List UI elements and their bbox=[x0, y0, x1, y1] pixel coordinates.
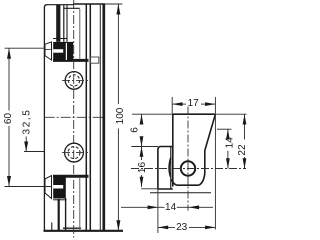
svg-text:23: 23 bbox=[176, 222, 188, 233]
svg-text:22: 22 bbox=[237, 144, 248, 156]
svg-text:14: 14 bbox=[165, 202, 177, 213]
svg-text:6: 6 bbox=[129, 127, 140, 133]
svg-text:32,5: 32,5 bbox=[21, 109, 32, 135]
svg-text:100: 100 bbox=[115, 107, 126, 124]
svg-text:14: 14 bbox=[224, 137, 235, 149]
svg-text:17: 17 bbox=[188, 98, 200, 109]
svg-text:16: 16 bbox=[137, 162, 148, 174]
svg-text:60: 60 bbox=[3, 113, 14, 125]
